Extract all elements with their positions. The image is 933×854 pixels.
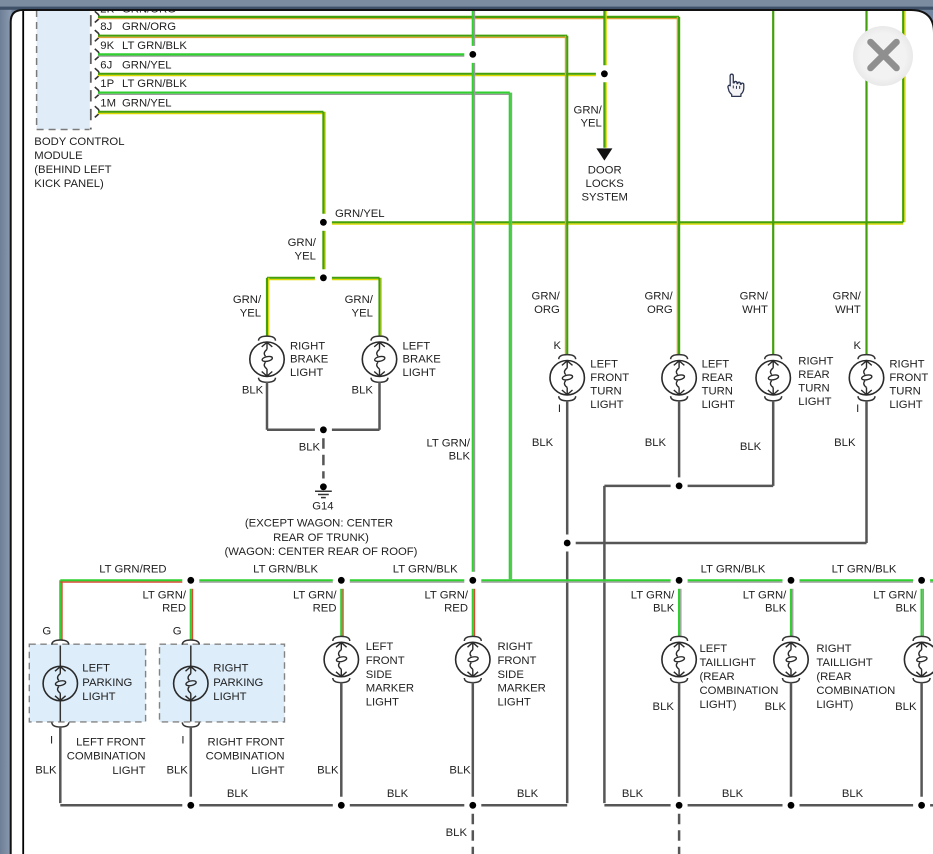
svg-text:PARKING: PARKING xyxy=(82,677,132,689)
svg-text:LIGHT: LIGHT xyxy=(112,765,145,777)
svg-text:GRN/ORG: GRN/ORG xyxy=(122,21,176,33)
svg-text:GRN/: GRN/ xyxy=(233,294,262,306)
svg-text:COMBINATION: COMBINATION xyxy=(67,751,146,763)
svg-text:TAILLIGHT: TAILLIGHT xyxy=(700,657,756,669)
svg-text:LIGHT: LIGHT xyxy=(251,765,284,777)
svg-text:RIGHT: RIGHT xyxy=(816,643,851,655)
svg-text:BLK: BLK xyxy=(166,765,188,777)
svg-text:BLK: BLK xyxy=(532,437,554,449)
svg-text:I: I xyxy=(558,403,561,415)
svg-text:REAR: REAR xyxy=(798,369,829,381)
svg-text:DOOR: DOOR xyxy=(588,164,622,176)
svg-text:LIGHT: LIGHT xyxy=(290,367,323,379)
svg-text:SIDE: SIDE xyxy=(498,669,525,681)
svg-text:GRN/: GRN/ xyxy=(833,291,862,303)
svg-text:MODULE: MODULE xyxy=(34,150,83,162)
svg-text:LIGHT: LIGHT xyxy=(590,399,623,411)
svg-text:BLK: BLK xyxy=(622,788,644,800)
svg-text:(REAR: (REAR xyxy=(816,671,851,683)
svg-text:I: I xyxy=(856,403,859,415)
svg-text:BLK: BLK xyxy=(449,451,471,463)
svg-text:(BEHIND LEFT: (BEHIND LEFT xyxy=(34,164,111,176)
svg-text:LT GRN/: LT GRN/ xyxy=(631,590,675,602)
svg-text:ORG: ORG xyxy=(647,304,673,316)
svg-text:PARKING: PARKING xyxy=(213,677,263,689)
svg-text:WHT: WHT xyxy=(835,304,861,316)
svg-text:LEFT FRONT: LEFT FRONT xyxy=(76,736,146,748)
svg-text:TURN: TURN xyxy=(702,386,733,398)
svg-text:8J: 8J xyxy=(100,21,112,33)
svg-text:GRN/YEL: GRN/YEL xyxy=(335,208,385,220)
svg-text:MARKER: MARKER xyxy=(498,683,546,695)
svg-text:LEFT: LEFT xyxy=(403,340,431,352)
svg-text:GRN/: GRN/ xyxy=(574,105,603,117)
svg-text:COMBINATION: COMBINATION xyxy=(206,751,285,763)
svg-text:GRN/YEL: GRN/YEL xyxy=(122,59,172,71)
svg-text:BLK: BLK xyxy=(653,603,675,615)
svg-text:LIGHT: LIGHT xyxy=(798,396,831,408)
svg-text:YEL: YEL xyxy=(240,308,261,320)
svg-text:BLK: BLK xyxy=(227,788,249,800)
svg-text:LT GRN/: LT GRN/ xyxy=(873,590,917,602)
svg-text:GRN/: GRN/ xyxy=(345,294,374,306)
svg-text:RIGHT: RIGHT xyxy=(213,663,248,675)
svg-text:LEFT: LEFT xyxy=(366,641,394,653)
svg-text:G: G xyxy=(42,626,51,638)
svg-text:LT GRN/BLK: LT GRN/BLK xyxy=(701,564,766,576)
svg-text:RED: RED xyxy=(162,603,186,615)
svg-text:LT GRN/: LT GRN/ xyxy=(293,590,337,602)
svg-text:YEL: YEL xyxy=(352,308,373,320)
svg-text:KICK PANEL): KICK PANEL) xyxy=(34,178,104,190)
svg-text:MARKER: MARKER xyxy=(366,683,414,695)
svg-text:BLK: BLK xyxy=(446,827,468,839)
svg-text:TURN: TURN xyxy=(889,386,920,398)
svg-text:LT GRN/BLK: LT GRN/BLK xyxy=(122,78,187,90)
svg-text:G14: G14 xyxy=(312,500,333,512)
svg-text:BRAKE: BRAKE xyxy=(403,354,442,366)
svg-text:FRONT: FRONT xyxy=(590,372,629,384)
svg-text:(WAGON: CENTER REAR OF ROOF): (WAGON: CENTER REAR OF ROOF) xyxy=(225,546,418,558)
svg-text:REAR: REAR xyxy=(702,372,733,384)
svg-text:SYSTEM: SYSTEM xyxy=(581,192,627,204)
svg-text:LT GRN/: LT GRN/ xyxy=(424,590,468,602)
svg-text:LOCKS: LOCKS xyxy=(586,178,625,190)
svg-text:FRONT: FRONT xyxy=(366,655,405,667)
svg-text:BLK: BLK xyxy=(242,385,264,397)
svg-text:LIGHT: LIGHT xyxy=(889,399,922,411)
svg-text:REAR OF TRUNK): REAR OF TRUNK) xyxy=(273,532,369,544)
svg-text:BLK: BLK xyxy=(35,765,57,777)
svg-text:YEL: YEL xyxy=(295,251,316,263)
svg-text:BRAKE: BRAKE xyxy=(290,354,329,366)
svg-text:G: G xyxy=(173,626,182,638)
svg-text:LEFT: LEFT xyxy=(702,358,730,370)
svg-text:LT GRN/BLK: LT GRN/BLK xyxy=(832,564,897,576)
svg-text:I: I xyxy=(181,735,184,747)
svg-text:LT GRN/BLK: LT GRN/BLK xyxy=(393,564,458,576)
svg-text:RIGHT: RIGHT xyxy=(498,641,533,653)
svg-text:K: K xyxy=(853,340,861,352)
svg-text:LEFT: LEFT xyxy=(700,643,728,655)
svg-text:BLK: BLK xyxy=(722,788,744,800)
svg-text:BLK: BLK xyxy=(895,603,917,615)
svg-text:LIGHT: LIGHT xyxy=(702,399,735,411)
svg-text:GRN/: GRN/ xyxy=(740,291,769,303)
svg-text:GRN/: GRN/ xyxy=(532,291,561,303)
svg-text:FRONT: FRONT xyxy=(498,655,537,667)
svg-text:BLK: BLK xyxy=(387,788,409,800)
svg-text:LT GRN/: LT GRN/ xyxy=(426,438,470,450)
svg-text:BLK: BLK xyxy=(834,437,856,449)
svg-text:LT GRN/RED: LT GRN/RED xyxy=(99,564,166,576)
svg-text:LT GRN/BLK: LT GRN/BLK xyxy=(122,40,187,52)
svg-text:LEFT: LEFT xyxy=(590,358,618,370)
svg-text:BLK: BLK xyxy=(449,765,471,777)
svg-text:RIGHT: RIGHT xyxy=(290,340,325,352)
svg-text:LIGHT: LIGHT xyxy=(213,691,246,703)
svg-text:LT GRN/: LT GRN/ xyxy=(743,590,787,602)
svg-text:BODY CONTROL: BODY CONTROL xyxy=(34,136,124,148)
svg-text:(EXCEPT WAGON: CENTER: (EXCEPT WAGON: CENTER xyxy=(245,517,393,529)
svg-text:BLK: BLK xyxy=(765,603,787,615)
svg-text:LIGHT: LIGHT xyxy=(403,367,436,379)
svg-text:BLK: BLK xyxy=(517,788,539,800)
svg-text:COMBINATION: COMBINATION xyxy=(816,685,895,697)
svg-text:ORG: ORG xyxy=(534,304,560,316)
svg-text:BLK: BLK xyxy=(653,701,675,713)
svg-text:RIGHT FRONT: RIGHT FRONT xyxy=(208,736,285,748)
svg-text:LT GRN/: LT GRN/ xyxy=(142,590,186,602)
svg-text:BLK: BLK xyxy=(842,788,864,800)
svg-text:9K: 9K xyxy=(100,40,114,52)
svg-text:BLK: BLK xyxy=(299,442,321,454)
svg-text:LEFT: LEFT xyxy=(82,663,110,675)
svg-text:YEL: YEL xyxy=(580,118,601,130)
svg-text:LIGHT: LIGHT xyxy=(498,697,531,709)
svg-text:BLK: BLK xyxy=(895,701,917,713)
svg-text:TURN: TURN xyxy=(590,386,621,398)
svg-text:BLK: BLK xyxy=(765,701,787,713)
svg-text:I: I xyxy=(50,735,53,747)
svg-text:COMBINATION: COMBINATION xyxy=(700,685,779,697)
svg-text:RED: RED xyxy=(444,603,468,615)
svg-text:RIGHT: RIGHT xyxy=(798,355,833,367)
svg-text:GRN/: GRN/ xyxy=(288,237,317,249)
svg-text:LT GRN/BLK: LT GRN/BLK xyxy=(253,564,318,576)
svg-text:LIGHT): LIGHT) xyxy=(816,699,853,711)
svg-text:GRN/YEL: GRN/YEL xyxy=(122,97,172,109)
svg-text:TURN: TURN xyxy=(798,383,829,395)
svg-text:BLK: BLK xyxy=(645,437,667,449)
svg-text:1M: 1M xyxy=(100,97,116,109)
svg-text:LIGHT: LIGHT xyxy=(82,691,115,703)
svg-text:BLK: BLK xyxy=(317,765,339,777)
svg-text:SIDE: SIDE xyxy=(366,669,393,681)
svg-text:FRONT: FRONT xyxy=(889,372,928,384)
svg-text:K: K xyxy=(553,340,561,352)
svg-text:RIGHT: RIGHT xyxy=(889,358,924,370)
svg-text:GRN/: GRN/ xyxy=(644,291,673,303)
svg-text:BLK: BLK xyxy=(740,441,762,453)
svg-text:LIGHT: LIGHT xyxy=(366,697,399,709)
svg-text:6J: 6J xyxy=(100,59,112,71)
svg-text:TAILLIGHT: TAILLIGHT xyxy=(816,657,872,669)
svg-text:LIGHT): LIGHT) xyxy=(700,699,737,711)
svg-text:RED: RED xyxy=(313,603,337,615)
svg-text:BLK: BLK xyxy=(352,385,374,397)
svg-text:WHT: WHT xyxy=(742,304,768,316)
svg-text:1P: 1P xyxy=(100,78,114,90)
svg-text:(REAR: (REAR xyxy=(700,671,735,683)
